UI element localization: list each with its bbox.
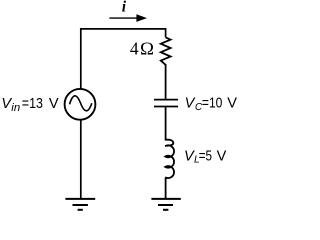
wire capacitor to inductor: [165, 107, 167, 139]
ground right bar2: [158, 204, 173, 206]
svg-text:V: V: [49, 96, 59, 112]
wire resistor to capacitor: [165, 64, 167, 99]
ground right bar3: [163, 209, 168, 211]
svg-text:=5: =5: [199, 148, 212, 164]
voltage source sine wave: [70, 96, 92, 111]
svg-text:in: in: [11, 102, 20, 114]
wire: left vertical up, top horizontal, right top stub: [81, 29, 166, 90]
current arrow line: [109, 17, 138, 19]
svg-text:=10: =10: [202, 96, 223, 112]
ground right bar1: [151, 198, 180, 200]
resistor R 4Ω zigzag: [161, 37, 171, 64]
current arrow head: [136, 14, 147, 22]
svg-text:i: i: [122, 0, 127, 15]
svg-text:V: V: [227, 96, 237, 112]
inductor L coil: [165, 140, 174, 178]
ground left bar2: [73, 204, 88, 206]
voltage source circle: [65, 89, 96, 120]
ground left bar3: [78, 209, 83, 211]
wire inductor to ground: [165, 178, 167, 199]
capacitor C bottom plate: [154, 106, 178, 108]
ground left bar1: [65, 198, 95, 200]
wire left vertical lower (source to ground): [80, 119, 82, 199]
svg-text:=13: =13: [22, 96, 43, 112]
capacitor C top plate: [154, 99, 178, 101]
svg-text:V: V: [217, 148, 227, 164]
svg-text:Ω: Ω: [140, 39, 154, 59]
svg-text:4: 4: [130, 39, 139, 59]
